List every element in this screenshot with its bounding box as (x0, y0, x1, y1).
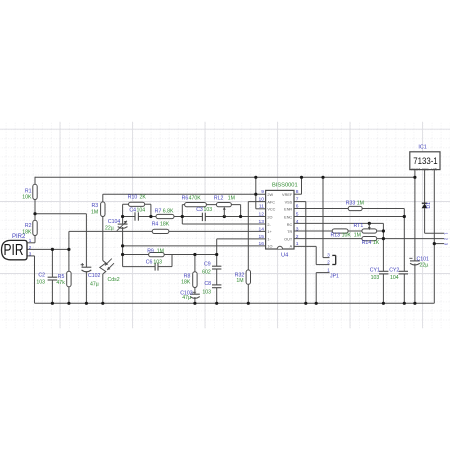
svg-text:470K: 470K (189, 195, 202, 201)
wire connector pin3 stub (434, 243, 444, 245)
node R1-R2 junction (33, 212, 36, 215)
wire JP1 pin3 riser from rail (322, 177, 324, 257)
wire C2 bottom (51, 280, 53, 303)
svg-text:47k: 47k (56, 280, 65, 286)
svg-text:4: 4 (296, 219, 299, 225)
svg-text:VOUT: VOUT (411, 168, 420, 172)
svg-text:U4: U4 (281, 253, 288, 259)
trimmer RT1 (362, 229, 377, 233)
wire pin1 to JP1 pin2 (294, 245, 316, 247)
wire R5 column (68, 231, 70, 303)
resistor R10 (129, 202, 145, 206)
svg-text:D1: D1 (426, 202, 432, 209)
wire pin4 row (294, 222, 383, 224)
svg-text:TR: TR (287, 230, 292, 234)
svg-text:7133-1: 7133-1 (413, 156, 438, 166)
svg-text:ENR: ENR (284, 208, 292, 212)
capacitor C6 (154, 263, 156, 271)
wire pin15 row (217, 238, 266, 240)
wire PIR pin3 to ground rail (34, 256, 36, 303)
svg-text:IC1: IC1 (418, 144, 426, 150)
node R9 row junctions (193, 253, 196, 256)
svg-text:1: 1 (29, 238, 32, 243)
svg-text:C2: C2 (38, 273, 45, 279)
svg-text:ENC: ENC (284, 215, 292, 219)
wire IC1 VOUT column with C101 (414, 170, 416, 261)
resistor R4 (152, 229, 169, 233)
wire pin3 row with R13 RT1 (294, 230, 383, 232)
wire pin14 row with R4 (69, 230, 266, 232)
svg-text:R2: R2 (25, 223, 32, 229)
resistor R9 (149, 253, 165, 257)
svg-text:1O: 1O (267, 245, 272, 249)
wire IC1 VIN column (433, 170, 435, 304)
wire 2nd-stage row pin12 (123, 216, 135, 218)
node C104 junctions (121, 244, 124, 247)
capacitor CY2 (399, 270, 408, 272)
capacitor C4 (134, 212, 136, 220)
capacitor C104 (118, 223, 128, 225)
wire pin2 row with R14 to connector (294, 238, 444, 240)
svg-text:1M: 1M (91, 210, 98, 216)
svg-text:104: 104 (390, 275, 399, 281)
wire VCC drop to pin11 (255, 177, 257, 209)
wire R9 row (123, 254, 217, 256)
svg-text:47µ: 47µ (182, 295, 191, 301)
svg-text:R3: R3 (92, 203, 99, 209)
svg-text:7: 7 (296, 197, 299, 203)
svg-text:2: 2 (29, 245, 32, 250)
svg-text:BISS0001: BISS0001 (272, 183, 298, 189)
resistor R5 (67, 271, 71, 287)
resistor R8 (193, 272, 197, 288)
svg-text:R14: R14 (362, 240, 372, 246)
node RT1 wiper junction (368, 222, 371, 225)
wire C2 top (51, 249, 53, 277)
wire C104 column (122, 217, 124, 225)
svg-text:9: 9 (261, 189, 264, 195)
resistor R7 (156, 214, 174, 218)
svg-text:104: 104 (137, 207, 146, 213)
svg-text:1: 1 (296, 241, 299, 247)
capacitor C3 (201, 213, 203, 221)
potentiometer RL2 (216, 203, 231, 207)
wire IC1 VSS column to D1 (424, 170, 426, 204)
svg-text:C4: C4 (129, 207, 136, 213)
svg-text:R10: R10 (128, 194, 138, 200)
svg-text:18K: 18K (160, 221, 170, 227)
svg-text:10: 10 (259, 197, 265, 203)
svg-text:5: 5 (296, 211, 299, 217)
op-amp U4 BISS0001 (266, 190, 294, 249)
wire pin7 VSS to ground (294, 201, 306, 203)
capacitor C9 (212, 265, 221, 267)
svg-text:2W: 2W (267, 193, 273, 197)
wire R6-RL2 parallel branch (182, 204, 240, 206)
capacitor C101 (410, 260, 420, 262)
svg-text:1+: 1+ (267, 230, 272, 234)
node ground rail junctions (51, 302, 54, 305)
wire pin5 row (294, 216, 404, 218)
diode D1 (422, 204, 428, 209)
wire VCC top rail (35, 176, 415, 178)
svg-text:C9: C9 (204, 262, 211, 268)
wire GND bottom rail (35, 302, 435, 304)
svg-text:Cds2: Cds2 (108, 277, 120, 283)
svg-text:2: 2 (327, 260, 330, 265)
svg-text:RT1: RT1 (354, 223, 364, 229)
svg-text:RC: RC (287, 223, 293, 227)
svg-text:PIR: PIR (4, 242, 24, 259)
svg-text:RL2: RL2 (214, 195, 224, 201)
photoresistor Cds2 (100, 261, 106, 275)
node RT1 right junctions (382, 229, 385, 232)
node 2nd-stage junctions (121, 215, 124, 218)
svg-text:1: 1 (327, 268, 330, 273)
svg-text:6: 6 (296, 204, 299, 210)
wire pin6 row with R33 (294, 208, 404, 210)
regulator IC1 7133-1 (410, 152, 440, 170)
svg-text:103: 103 (204, 207, 213, 213)
resistor R6 (185, 203, 207, 207)
svg-text:103: 103 (371, 275, 380, 281)
node PIR pin2 junctions (51, 248, 54, 251)
svg-text:602: 602 (202, 270, 211, 276)
svg-text:R4: R4 (152, 221, 159, 227)
svg-text:22µ: 22µ (420, 262, 429, 268)
wire R1-R2 column (34, 177, 36, 243)
svg-text:R7: R7 (155, 208, 162, 214)
wire D1 to connector pin1 (425, 232, 444, 234)
svg-text:R13: R13 (331, 233, 341, 239)
svg-text:8: 8 (296, 189, 299, 195)
svg-text:OUT: OUT (284, 238, 293, 242)
wire R33 bend CY2 column (403, 209, 405, 272)
wire JP1 pin1 to ground (316, 272, 329, 274)
capacitor C2 (48, 276, 58, 278)
svg-text:CY1: CY1 (370, 268, 380, 274)
wire R10 parallel branch (123, 203, 151, 205)
capacitor C8 (212, 284, 221, 286)
resistor R3 (101, 202, 105, 217)
resistor R1 (33, 184, 37, 199)
svg-text:103: 103 (202, 289, 211, 295)
wire R3-Cds2 column (102, 194, 104, 260)
svg-text:C8: C8 (204, 281, 211, 287)
svg-text:1M: 1M (157, 249, 164, 255)
svg-text:47µ: 47µ (90, 282, 99, 288)
wire R8-C103 column (194, 255, 196, 295)
svg-text:VSS: VSS (422, 168, 430, 172)
svg-text:1M: 1M (236, 278, 243, 284)
svg-text:15: 15 (259, 234, 265, 240)
svg-text:VSS: VSS (285, 200, 293, 204)
node VIN connector junction (433, 242, 436, 245)
node pin9-VCC crossing (254, 193, 257, 196)
svg-text:1K: 1K (373, 240, 380, 246)
svg-text:103: 103 (36, 279, 45, 285)
svg-text:1M: 1M (354, 233, 361, 239)
wire pin8 to rail (294, 193, 302, 195)
wire C9-C8 column (216, 255, 218, 267)
wire C6 parallel branch (123, 266, 156, 268)
svg-text:R9: R9 (147, 249, 154, 255)
jumper JP1 (332, 254, 335, 256)
resistor R14 (362, 237, 377, 241)
wire C102 bottom (85, 272, 87, 304)
wire pin10 to R32 (248, 201, 265, 203)
wire RT1 CY1 column (382, 223, 384, 271)
svg-text:VREF: VREF (282, 193, 293, 197)
svg-text:3: 3 (29, 251, 32, 256)
wire PIR pin3 stub (27, 255, 35, 257)
node R33-pin5 junction (403, 215, 406, 218)
svg-text:1M: 1M (228, 195, 235, 201)
svg-text:10K: 10K (22, 195, 32, 201)
resistor R13 (332, 229, 348, 233)
svg-text:18K: 18K (22, 230, 32, 236)
svg-text:JP1: JP1 (330, 274, 339, 280)
wire PIR pin1 stub (27, 242, 35, 244)
svg-text:AFC: AFC (267, 200, 275, 204)
svg-text:22µ: 22µ (105, 225, 114, 231)
svg-text:R6: R6 (182, 195, 189, 201)
wire R1R2-junction to C102 (35, 213, 86, 215)
capacitor C102 (82, 266, 92, 268)
svg-text:VCC: VCC (267, 208, 275, 212)
svg-text:C104: C104 (108, 219, 121, 225)
capacitor CY1 (379, 270, 388, 272)
svg-text:2O: 2O (267, 215, 272, 219)
connector PIR2 (2, 240, 28, 259)
resistor R33 (348, 206, 362, 210)
svg-text:103: 103 (153, 259, 162, 265)
wire pin16 row (123, 245, 266, 247)
svg-text:11: 11 (259, 204, 264, 210)
svg-text:VIN: VIN (432, 168, 438, 172)
svg-text:16: 16 (259, 241, 265, 247)
wire pin13 row (182, 223, 265, 225)
svg-text:2K: 2K (140, 194, 147, 200)
svg-text:C6: C6 (146, 259, 153, 265)
resistor R2 (33, 220, 37, 235)
capacitor C103 (190, 293, 200, 295)
svg-text:R33: R33 (346, 201, 356, 207)
svg-text:10K: 10K (342, 233, 352, 239)
svg-text:14: 14 (259, 226, 265, 232)
svg-text:18K: 18K (181, 280, 191, 286)
node VCC rail junctions (254, 176, 257, 179)
wire PIR pin2 row (27, 248, 69, 250)
svg-text:1M: 1M (357, 201, 364, 207)
wire pin9 row (R3 to U4) (103, 193, 266, 195)
svg-text:3: 3 (327, 252, 330, 257)
svg-text:2: 2 (296, 234, 299, 240)
svg-text:13: 13 (259, 219, 265, 225)
resistor R32 (246, 270, 250, 284)
svg-text:3: 3 (296, 226, 299, 232)
svg-text:12: 12 (259, 211, 265, 217)
svg-text:C102: C102 (88, 273, 101, 279)
svg-text:6.8K: 6.8K (163, 208, 174, 214)
svg-text:CY2: CY2 (389, 268, 399, 274)
svg-text:C3: C3 (196, 207, 203, 213)
